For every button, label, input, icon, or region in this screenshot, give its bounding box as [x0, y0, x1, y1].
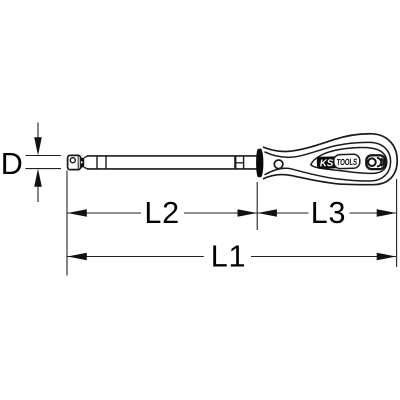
L1 arrow left: [68, 253, 87, 261]
end ring arc 2: [377, 158, 381, 167]
D extension line top: [26, 155, 62, 157]
ferrule ring line 1: [96, 156, 98, 169]
L1 arrow right: [377, 253, 396, 261]
handle stadium panel: [311, 148, 387, 174]
end ring arc 3: [381, 159, 384, 166]
L3 dimension line: [258, 212, 396, 214]
L3 arrow left: [258, 209, 277, 217]
ball detent: [70, 158, 75, 163]
L1 dimension line: [68, 256, 397, 258]
L3 arrow right: [377, 209, 396, 217]
D arrow down: [34, 123, 42, 156]
collar: [256, 149, 263, 178]
handle outer contour: [263, 134, 397, 185]
L2 arrow left: [68, 209, 87, 217]
end ring bezel: [366, 155, 385, 169]
svg-text:TOOLS: TOOLS: [336, 157, 357, 168]
shaft joint: [235, 156, 243, 169]
ferrule ring line 2: [105, 156, 107, 169]
L2 dimension line: [68, 212, 257, 214]
handle inner contour: [265, 142, 391, 181]
svg-text:KS: KS: [320, 158, 334, 169]
extension line right: [396, 179, 398, 267]
D arrow up: [34, 169, 42, 202]
svg-text:L1: L1: [211, 239, 247, 273]
ferrule taper: [84, 156, 87, 169]
svg-text:L3: L3: [311, 196, 347, 230]
end ring circle: [368, 158, 376, 166]
L2 arrow right: [238, 209, 257, 217]
svg-text:D: D: [1, 147, 23, 181]
KS logo box: [317, 154, 360, 169]
neck chamfer: [81, 158, 85, 168]
square drive tip: [68, 155, 81, 169]
extension line middle: [256, 182, 258, 230]
handle pin hole: [274, 160, 283, 169]
svg-text:L2: L2: [144, 196, 180, 230]
shaft tube: [87, 156, 258, 169]
extension line left: [66, 171, 68, 276]
TOOLS logo box: [334, 154, 360, 169]
D extension line bottom: [26, 168, 62, 170]
